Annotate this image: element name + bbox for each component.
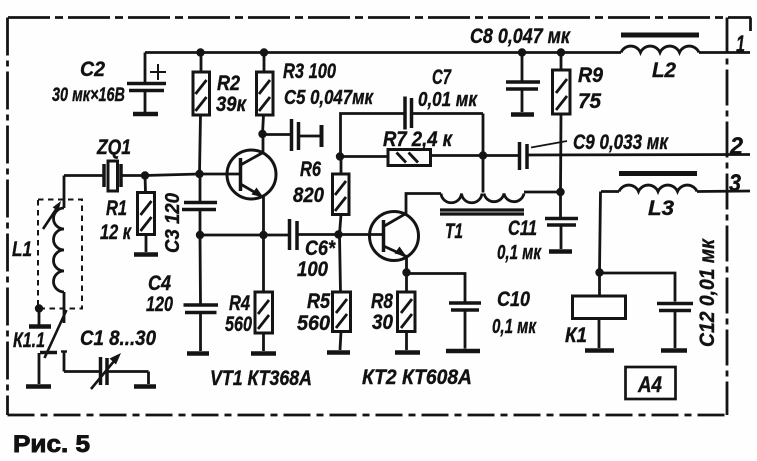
svg-text:30 мк×16В: 30 мк×16В bbox=[52, 85, 125, 106]
svg-text:С9 0,033 мк: С9 0,033 мк bbox=[573, 130, 669, 154]
svg-text:R3 100: R3 100 bbox=[283, 59, 336, 83]
svg-text:R6: R6 bbox=[300, 157, 322, 181]
svg-text:2: 2 bbox=[729, 133, 744, 160]
svg-text:1: 1 bbox=[736, 31, 745, 58]
svg-text:С11: С11 bbox=[508, 216, 537, 240]
svg-text:L3: L3 bbox=[648, 196, 674, 220]
svg-text:Рис. 5: Рис. 5 bbox=[13, 431, 90, 458]
svg-text:0,1 мк: 0,1 мк bbox=[492, 316, 537, 338]
svg-text:С10: С10 bbox=[497, 287, 530, 311]
svg-text:С7: С7 bbox=[432, 65, 452, 89]
svg-text:А4: А4 bbox=[637, 372, 662, 397]
svg-text:R5: R5 bbox=[307, 289, 331, 313]
svg-text:К1.1: К1.1 bbox=[13, 328, 45, 352]
svg-text:0,01 мк: 0,01 мк bbox=[418, 89, 478, 111]
svg-text:КТ2 КТ608А: КТ2 КТ608А bbox=[362, 365, 472, 389]
svg-text:3: 3 bbox=[729, 170, 742, 197]
svg-text:С12 0,01 мк: С12 0,01 мк bbox=[695, 238, 719, 347]
svg-text:R1: R1 bbox=[106, 196, 127, 220]
svg-text:ZQ1: ZQ1 bbox=[96, 135, 131, 159]
svg-text:C1 8...30: C1 8...30 bbox=[80, 326, 156, 350]
svg-text:C5 0,047мк: C5 0,047мк bbox=[284, 87, 374, 109]
svg-text:VT1 КТ368А: VT1 КТ368А bbox=[210, 366, 312, 390]
svg-text:820: 820 bbox=[293, 183, 324, 207]
svg-text:560: 560 bbox=[225, 312, 252, 336]
svg-text:L2: L2 bbox=[652, 58, 676, 82]
svg-text:Т1: Т1 bbox=[445, 219, 463, 243]
svg-text:С8 0,047 мк: С8 0,047 мк bbox=[470, 24, 571, 48]
svg-text:12 к: 12 к bbox=[100, 220, 132, 244]
svg-text:39к: 39к bbox=[216, 92, 247, 116]
svg-text:L1: L1 bbox=[12, 237, 32, 261]
svg-text:75: 75 bbox=[578, 89, 602, 113]
svg-text:R9: R9 bbox=[578, 63, 603, 87]
svg-text:R7 2,4 к: R7 2,4 к bbox=[383, 127, 453, 151]
svg-text:30: 30 bbox=[372, 310, 393, 334]
svg-text:0,1 мк: 0,1 мк bbox=[497, 242, 542, 264]
svg-text:C2: C2 bbox=[80, 57, 105, 81]
svg-text:К1: К1 bbox=[565, 323, 587, 347]
svg-text:С3 120: С3 120 bbox=[162, 193, 184, 253]
svg-text:120: 120 bbox=[146, 292, 173, 316]
svg-text:560: 560 bbox=[297, 311, 330, 335]
svg-text:100: 100 bbox=[297, 257, 328, 281]
